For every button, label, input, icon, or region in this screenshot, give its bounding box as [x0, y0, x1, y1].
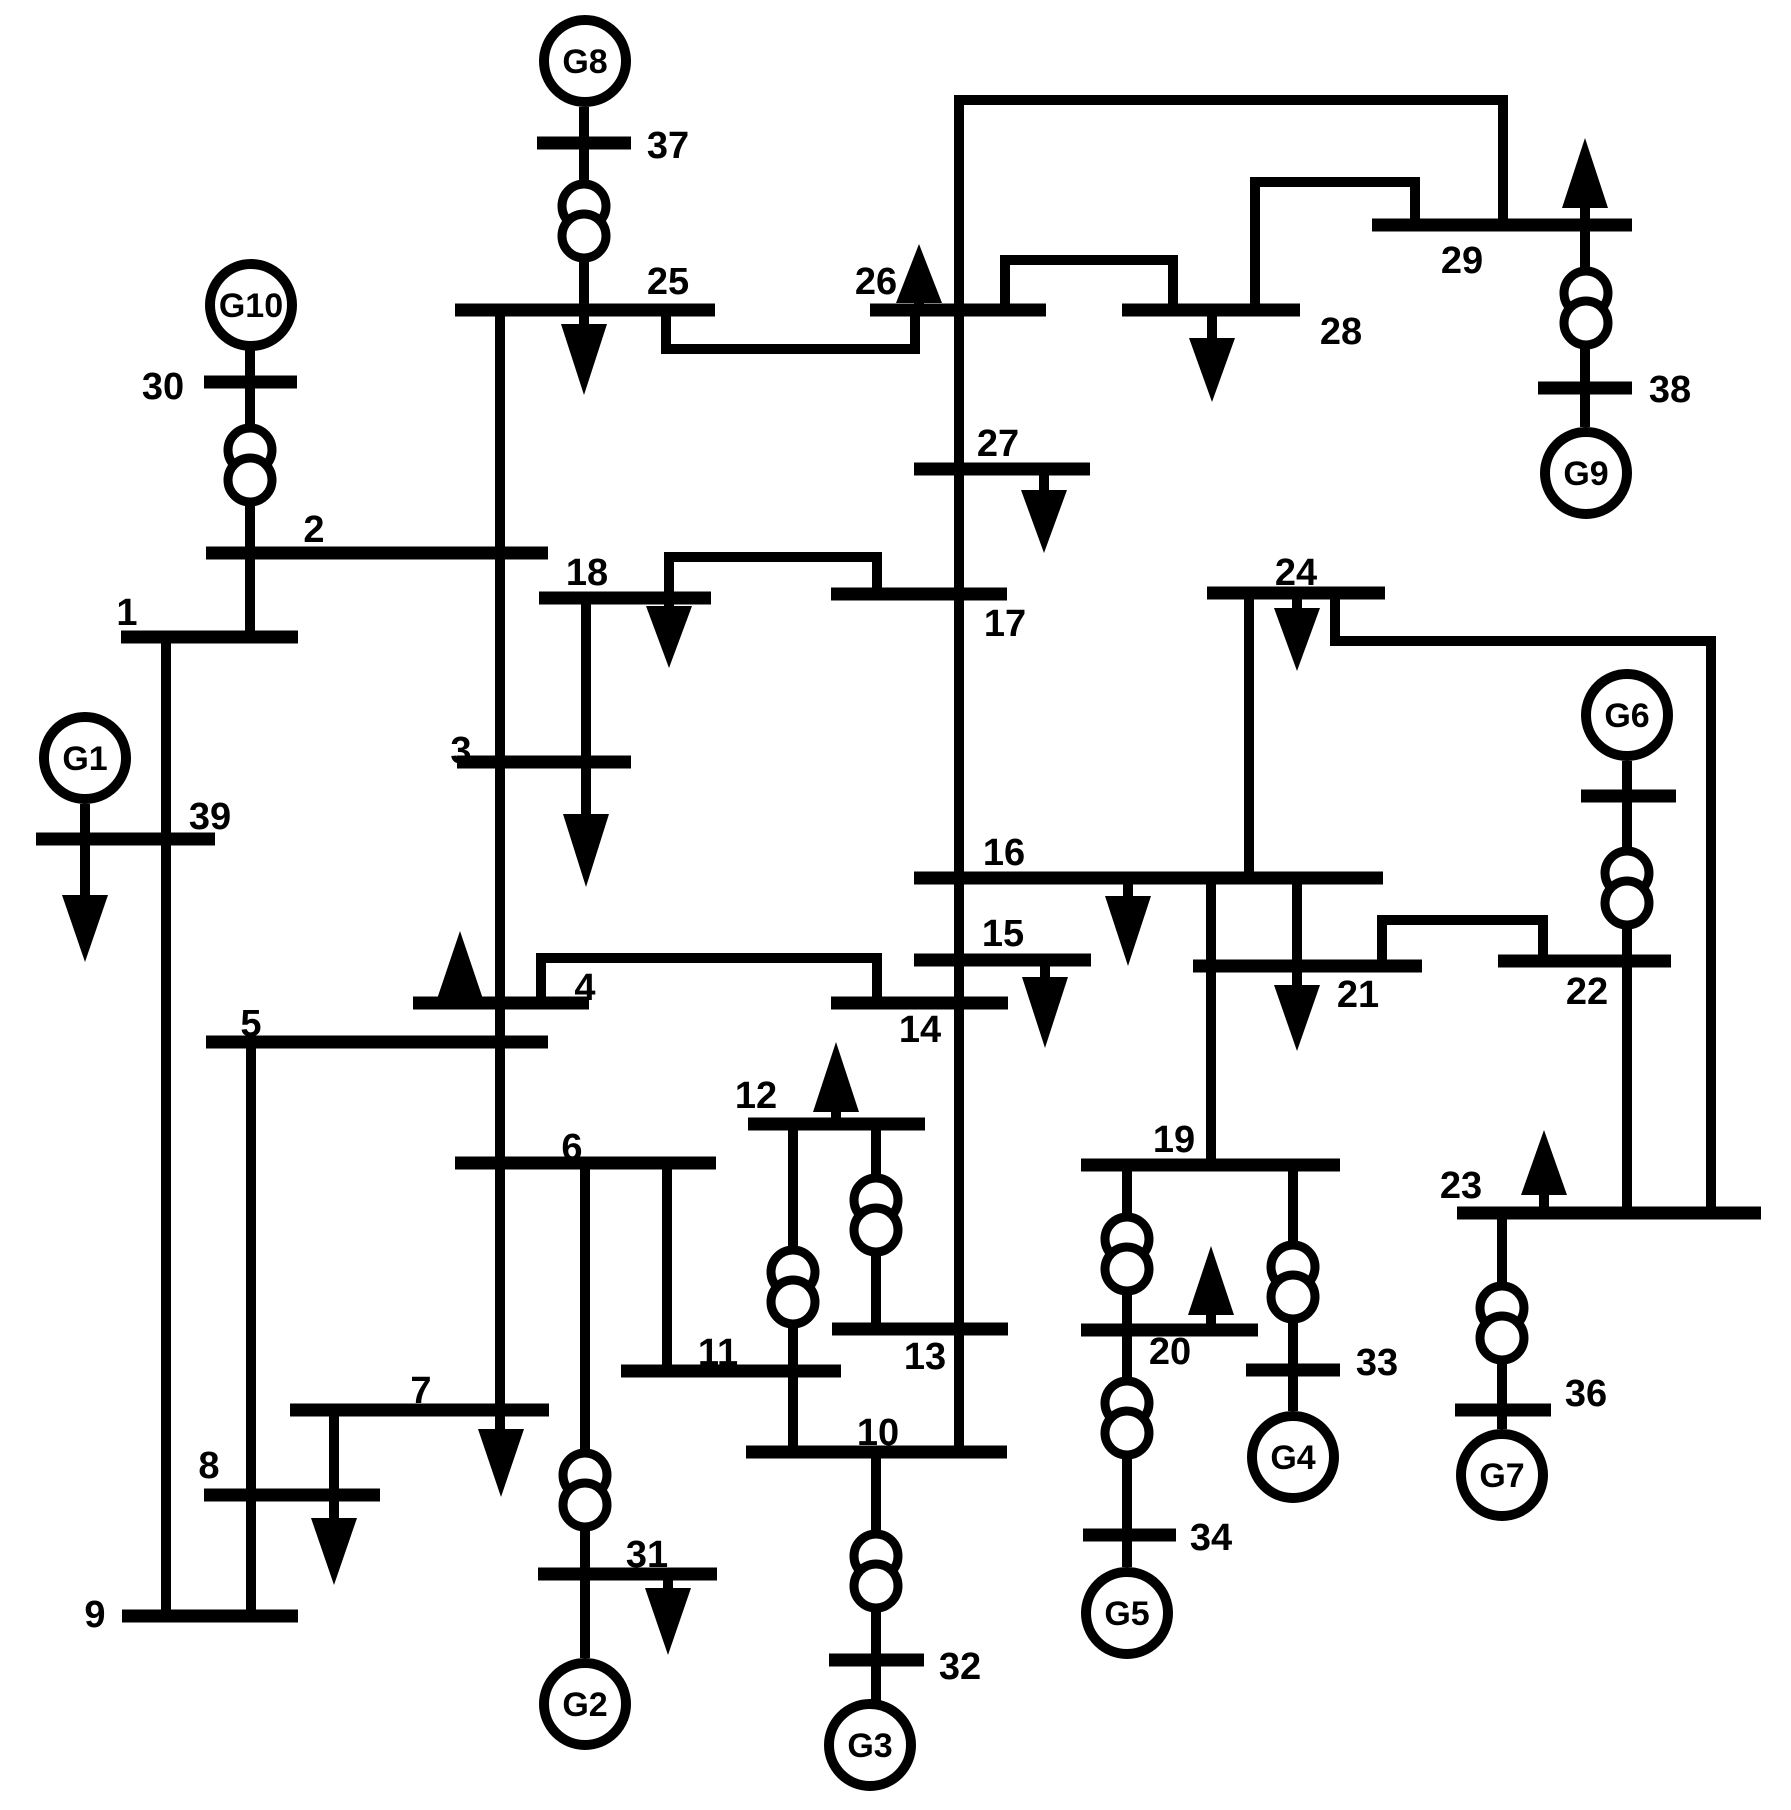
generator G4: [1252, 1416, 1334, 1498]
wire bus 25 - bus 2 - bus 3 - bus 4 - bus 5 - bus 6 - bus 7: [495, 310, 505, 1429]
svg-text:20: 20: [1149, 1331, 1191, 1373]
transformer T7 (bus 23 - bus 36, G7 step-up): [1480, 1286, 1524, 1360]
svg-text:G2: G2: [562, 1686, 607, 1724]
wire bus 18 - bus 3: [581, 598, 591, 814]
svg-text:37: 37: [647, 125, 689, 167]
svg-text:1: 1: [116, 592, 137, 634]
wire bus 1 - bus 39 - bus 9: [161, 637, 171, 1616]
bus 24: [1207, 552, 1385, 594]
bus 14: [831, 1003, 1008, 1051]
bus 19: [1081, 1119, 1340, 1165]
bus 25: [455, 261, 715, 310]
wire bus 12 to transformer to bus 13: [871, 1124, 881, 1329]
svg-text:29: 29: [1441, 240, 1483, 282]
load arrow at bus 25: [561, 310, 607, 395]
bus 38: [1538, 369, 1691, 411]
generator G1: [44, 717, 126, 799]
wire bus 19 to transformer to bus 20 to transformer to bus 34 to G5: [1122, 1165, 1132, 1567]
load arrow at bus 39: [62, 845, 108, 962]
flow arrow at bus 29 (up): [1562, 138, 1608, 208]
svg-text:G9: G9: [1563, 455, 1608, 493]
bus 21: [1193, 966, 1422, 1016]
bus 4: [413, 967, 596, 1009]
svg-text:26: 26: [855, 261, 897, 303]
svg-text:8: 8: [198, 1445, 219, 1487]
bus 27: [914, 423, 1090, 469]
bus 39: [36, 796, 231, 839]
bus 23: [1440, 1165, 1761, 1213]
svg-text:19: 19: [1153, 1119, 1195, 1161]
wire bus 16 - bus 19: [1206, 878, 1216, 1165]
svg-text:3: 3: [450, 730, 471, 772]
bus 16: [914, 832, 1383, 878]
wire bus 28 - bus 29: [1255, 182, 1415, 310]
svg-text:32: 32: [939, 1646, 981, 1688]
svg-text:17: 17: [984, 603, 1026, 645]
svg-text:39: 39: [189, 796, 231, 838]
bus 35 (G6 terminal bar, unlabeled): [1581, 790, 1676, 803]
svg-text:16: 16: [983, 832, 1025, 874]
wire bus 6 - bus 11: [662, 1163, 672, 1371]
svg-text:14: 14: [899, 1009, 941, 1051]
svg-text:31: 31: [626, 1534, 668, 1576]
svg-text:15: 15: [982, 913, 1024, 955]
load arrow at bus 8: [311, 1518, 357, 1585]
svg-text:4: 4: [574, 967, 595, 1009]
wire bus 24 - bus 23: [1335, 593, 1711, 1213]
load arrow at bus 20 (up): [1188, 1246, 1234, 1330]
wire G10 to bus 30 to transformer to bus 2: [245, 346, 255, 553]
svg-text:9: 9: [84, 1594, 105, 1636]
bus 5: [206, 1003, 548, 1045]
svg-text:13: 13: [904, 1336, 946, 1378]
load arrow at bus 23 (up): [1521, 1130, 1567, 1213]
generator G7: [1461, 1434, 1543, 1516]
transformer T2 (bus 6 - bus 31, G2 step-up): [563, 1453, 607, 1527]
bus 3: [450, 730, 631, 772]
svg-text:6: 6: [561, 1127, 582, 1169]
bus 30: [142, 366, 297, 408]
svg-text:33: 33: [1356, 1342, 1398, 1384]
svg-text:G6: G6: [1604, 697, 1649, 735]
wire bus 10 to transformer to bus 32 to G3: [871, 1452, 881, 1701]
wire bus 19 to transformer to bus 33 to G4: [1288, 1165, 1298, 1411]
bus 6: [455, 1127, 716, 1169]
load arrow at bus 3: [563, 814, 609, 887]
bus 34: [1083, 1517, 1232, 1559]
svg-text:34: 34: [1190, 1517, 1232, 1559]
load arrow at bus 28: [1189, 310, 1235, 402]
wire bus 25 - bus 26: [666, 310, 915, 349]
svg-text:11: 11: [698, 1332, 738, 1374]
load arrow at bus 21: [1274, 985, 1320, 1051]
svg-text:G1: G1: [62, 740, 107, 778]
load arrow at bus 15: [1022, 960, 1068, 1048]
transformer T19-20 (bus 19 - bus 20): [1105, 1217, 1149, 1291]
transformer T6 (bus 22 - G6 step-up): [1605, 851, 1649, 925]
wire bus 12 to transformer to bus 11 to bus 10: [788, 1124, 798, 1452]
generator G5: [1086, 1572, 1168, 1654]
transformer T9 (bus 29 - bus 38, G9 step-up): [1564, 271, 1608, 345]
wire bus 21 - bus 22: [1382, 920, 1543, 966]
svg-text:22: 22: [1566, 971, 1608, 1013]
wire G8 to bus 37 to transformer to bus 25: [579, 107, 589, 310]
wire bus 26 - bus 29: [959, 100, 1503, 310]
bus 20: [1081, 1330, 1258, 1373]
wire bus 18 - bus 17: [669, 557, 877, 598]
load arrow at bus 16: [1105, 878, 1151, 966]
transformer T4 (bus 20 - bus 34, G4 chain): [1105, 1381, 1149, 1455]
bus 22: [1498, 961, 1671, 1013]
bus 11: [621, 1332, 841, 1374]
load arrow at bus 12 (up): [813, 1042, 859, 1124]
bus 8: [198, 1445, 380, 1495]
load arrow at bus 26 (up): [896, 244, 942, 310]
transformer T3 (bus 10 - bus 32, G3 step-up): [854, 1534, 898, 1608]
svg-text:7: 7: [410, 1370, 431, 1412]
bus 10: [746, 1412, 1007, 1454]
bus 29: [1372, 225, 1632, 282]
wire bus 4 - bus 14: [541, 958, 877, 1003]
transformer T12-13 (bus 12 - bus 13): [854, 1178, 898, 1252]
bus 33: [1246, 1342, 1398, 1384]
bus 36: [1455, 1373, 1607, 1415]
wire bus 29 to transformer to bus 38 to G9: [1580, 208, 1590, 427]
load arrow at bus 18: [646, 598, 692, 668]
svg-text:27: 27: [977, 423, 1019, 465]
wire G1 to bus 39: [80, 804, 90, 845]
bus 15: [914, 913, 1091, 960]
wire bus 24 - bus 16: [1244, 593, 1254, 878]
wire G6 to transformer to bus 22 to bus 23: [1622, 761, 1632, 1213]
bus 37: [537, 125, 689, 167]
generator G9: [1545, 432, 1627, 514]
generator G2: [544, 1663, 626, 1745]
bus 28: [1122, 310, 1362, 353]
wire bus 26 - bus 27 - bus 17 - bus 16 - bus 15 - bus 14 - bus 13 - bus 10: [954, 310, 964, 1452]
svg-text:12: 12: [735, 1075, 777, 1117]
wire bus 2 - bus 1: [245, 553, 255, 637]
wire bus 23 to transformer to bus 36 to G7: [1497, 1213, 1507, 1429]
svg-text:G5: G5: [1104, 1595, 1149, 1633]
svg-text:10: 10: [857, 1412, 899, 1454]
svg-text:G10: G10: [219, 287, 283, 325]
transformer T12-11 (bus 12 - bus 11): [771, 1250, 815, 1324]
svg-text:23: 23: [1440, 1165, 1482, 1207]
generator G10: [210, 264, 292, 346]
wire bus 16 - bus 21: [1292, 878, 1302, 985]
svg-text:G7: G7: [1479, 1457, 1524, 1495]
bus 9: [84, 1594, 298, 1636]
bus 1: [116, 592, 298, 637]
svg-text:G8: G8: [562, 43, 607, 81]
load arrow at bus 24: [1274, 593, 1320, 671]
generator G3: [829, 1704, 911, 1786]
bus 26: [855, 261, 1046, 310]
load arrow at bus 7: [478, 1429, 524, 1497]
bus 7: [290, 1370, 549, 1412]
load arrow at bus 4 (up): [437, 931, 483, 1003]
svg-text:5: 5: [240, 1003, 261, 1045]
transformer T10 (bus 30 - bus 2, G10 step-up): [228, 428, 272, 502]
bus 17: [831, 594, 1026, 645]
bus 13: [832, 1329, 1008, 1378]
bus 31: [538, 1534, 717, 1576]
svg-text:G3: G3: [847, 1727, 892, 1765]
load arrow at bus 27: [1021, 469, 1067, 553]
bus 18: [539, 552, 711, 598]
bus 32: [829, 1646, 981, 1688]
bus 2: [206, 509, 548, 553]
svg-text:G4: G4: [1270, 1439, 1315, 1477]
svg-text:2: 2: [303, 509, 324, 551]
svg-text:28: 28: [1320, 311, 1362, 353]
wire bus 5 - bus 8 - bus 9: [246, 1042, 256, 1616]
generator G6: [1586, 674, 1668, 756]
transformer T8 (bus 37 - bus 25, G8 step-up): [562, 184, 606, 258]
svg-text:18: 18: [566, 552, 608, 594]
wire bus 26 - bus 28: [1005, 260, 1173, 310]
bus 12: [735, 1075, 925, 1124]
transformer T5 (bus 19 - bus 33, G5 chain): [1271, 1245, 1315, 1319]
svg-text:38: 38: [1649, 369, 1691, 411]
load arrow at bus 31: [645, 1574, 691, 1655]
generator G8: [544, 20, 626, 102]
wire bus 6 to transformer to bus 31 to G2: [580, 1163, 590, 1658]
wire bus 7 - bus 8: [329, 1410, 339, 1518]
svg-text:21: 21: [1337, 974, 1379, 1016]
svg-text:30: 30: [142, 366, 184, 408]
svg-text:36: 36: [1565, 1373, 1607, 1415]
svg-text:25: 25: [647, 261, 689, 303]
svg-text:24: 24: [1275, 552, 1317, 594]
